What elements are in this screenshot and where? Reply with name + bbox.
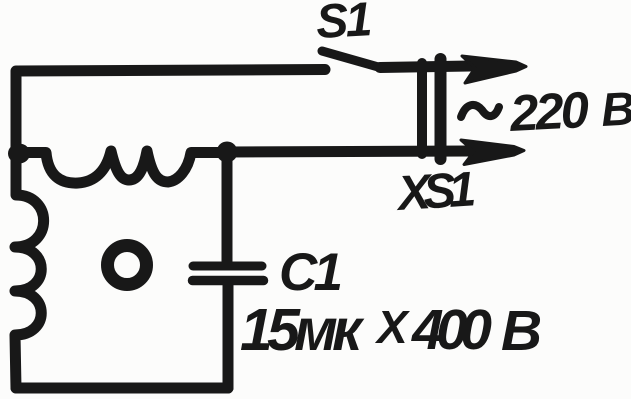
wire: top horizontal from left corner to switch: [16, 70, 325, 153]
svg-text:XS1: XS1: [393, 162, 477, 221]
connector XS1 left bar: [417, 63, 427, 154]
svg-text:15мк: 15мк: [240, 297, 365, 363]
wire: junction down to capacitor C1: [222, 152, 233, 261]
connector XS1 right bar: [435, 59, 447, 159]
wire: middle horizontal to bottom arrow: [227, 151, 470, 152]
capacitor C1 bottom plate: [193, 276, 264, 286]
switch S1 arm: [322, 51, 380, 68]
capacitor C1 top plate: [193, 262, 262, 271]
winding L1 horizontal coil: [16, 151, 227, 183]
wire: switch output to top arrow shaft: [380, 66, 470, 68]
wire: capacitor C1 to bottom wire: [223, 285, 234, 388]
label: tilde of ~220V: [461, 105, 499, 117]
arrow: top output to 220V: [462, 56, 526, 83]
motor M1 circle: [108, 246, 147, 285]
svg-text:S1: S1: [315, 0, 374, 49]
node B: junction middle: [217, 142, 238, 163]
wire: bottom horizontal: [16, 383, 228, 394]
svg-text:220: 220: [508, 81, 591, 142]
node A: junction left: [8, 144, 30, 164]
svg-text:400: 400: [411, 298, 492, 362]
svg-text:В: В: [600, 81, 631, 136]
winding L2 vertical coil on left: [15, 153, 44, 388]
svg-text:X: X: [374, 301, 410, 353]
arrow: bottom output to 220V: [461, 140, 524, 165]
svg-text:C1: C1: [279, 243, 343, 302]
svg-text:В: В: [501, 299, 542, 363]
